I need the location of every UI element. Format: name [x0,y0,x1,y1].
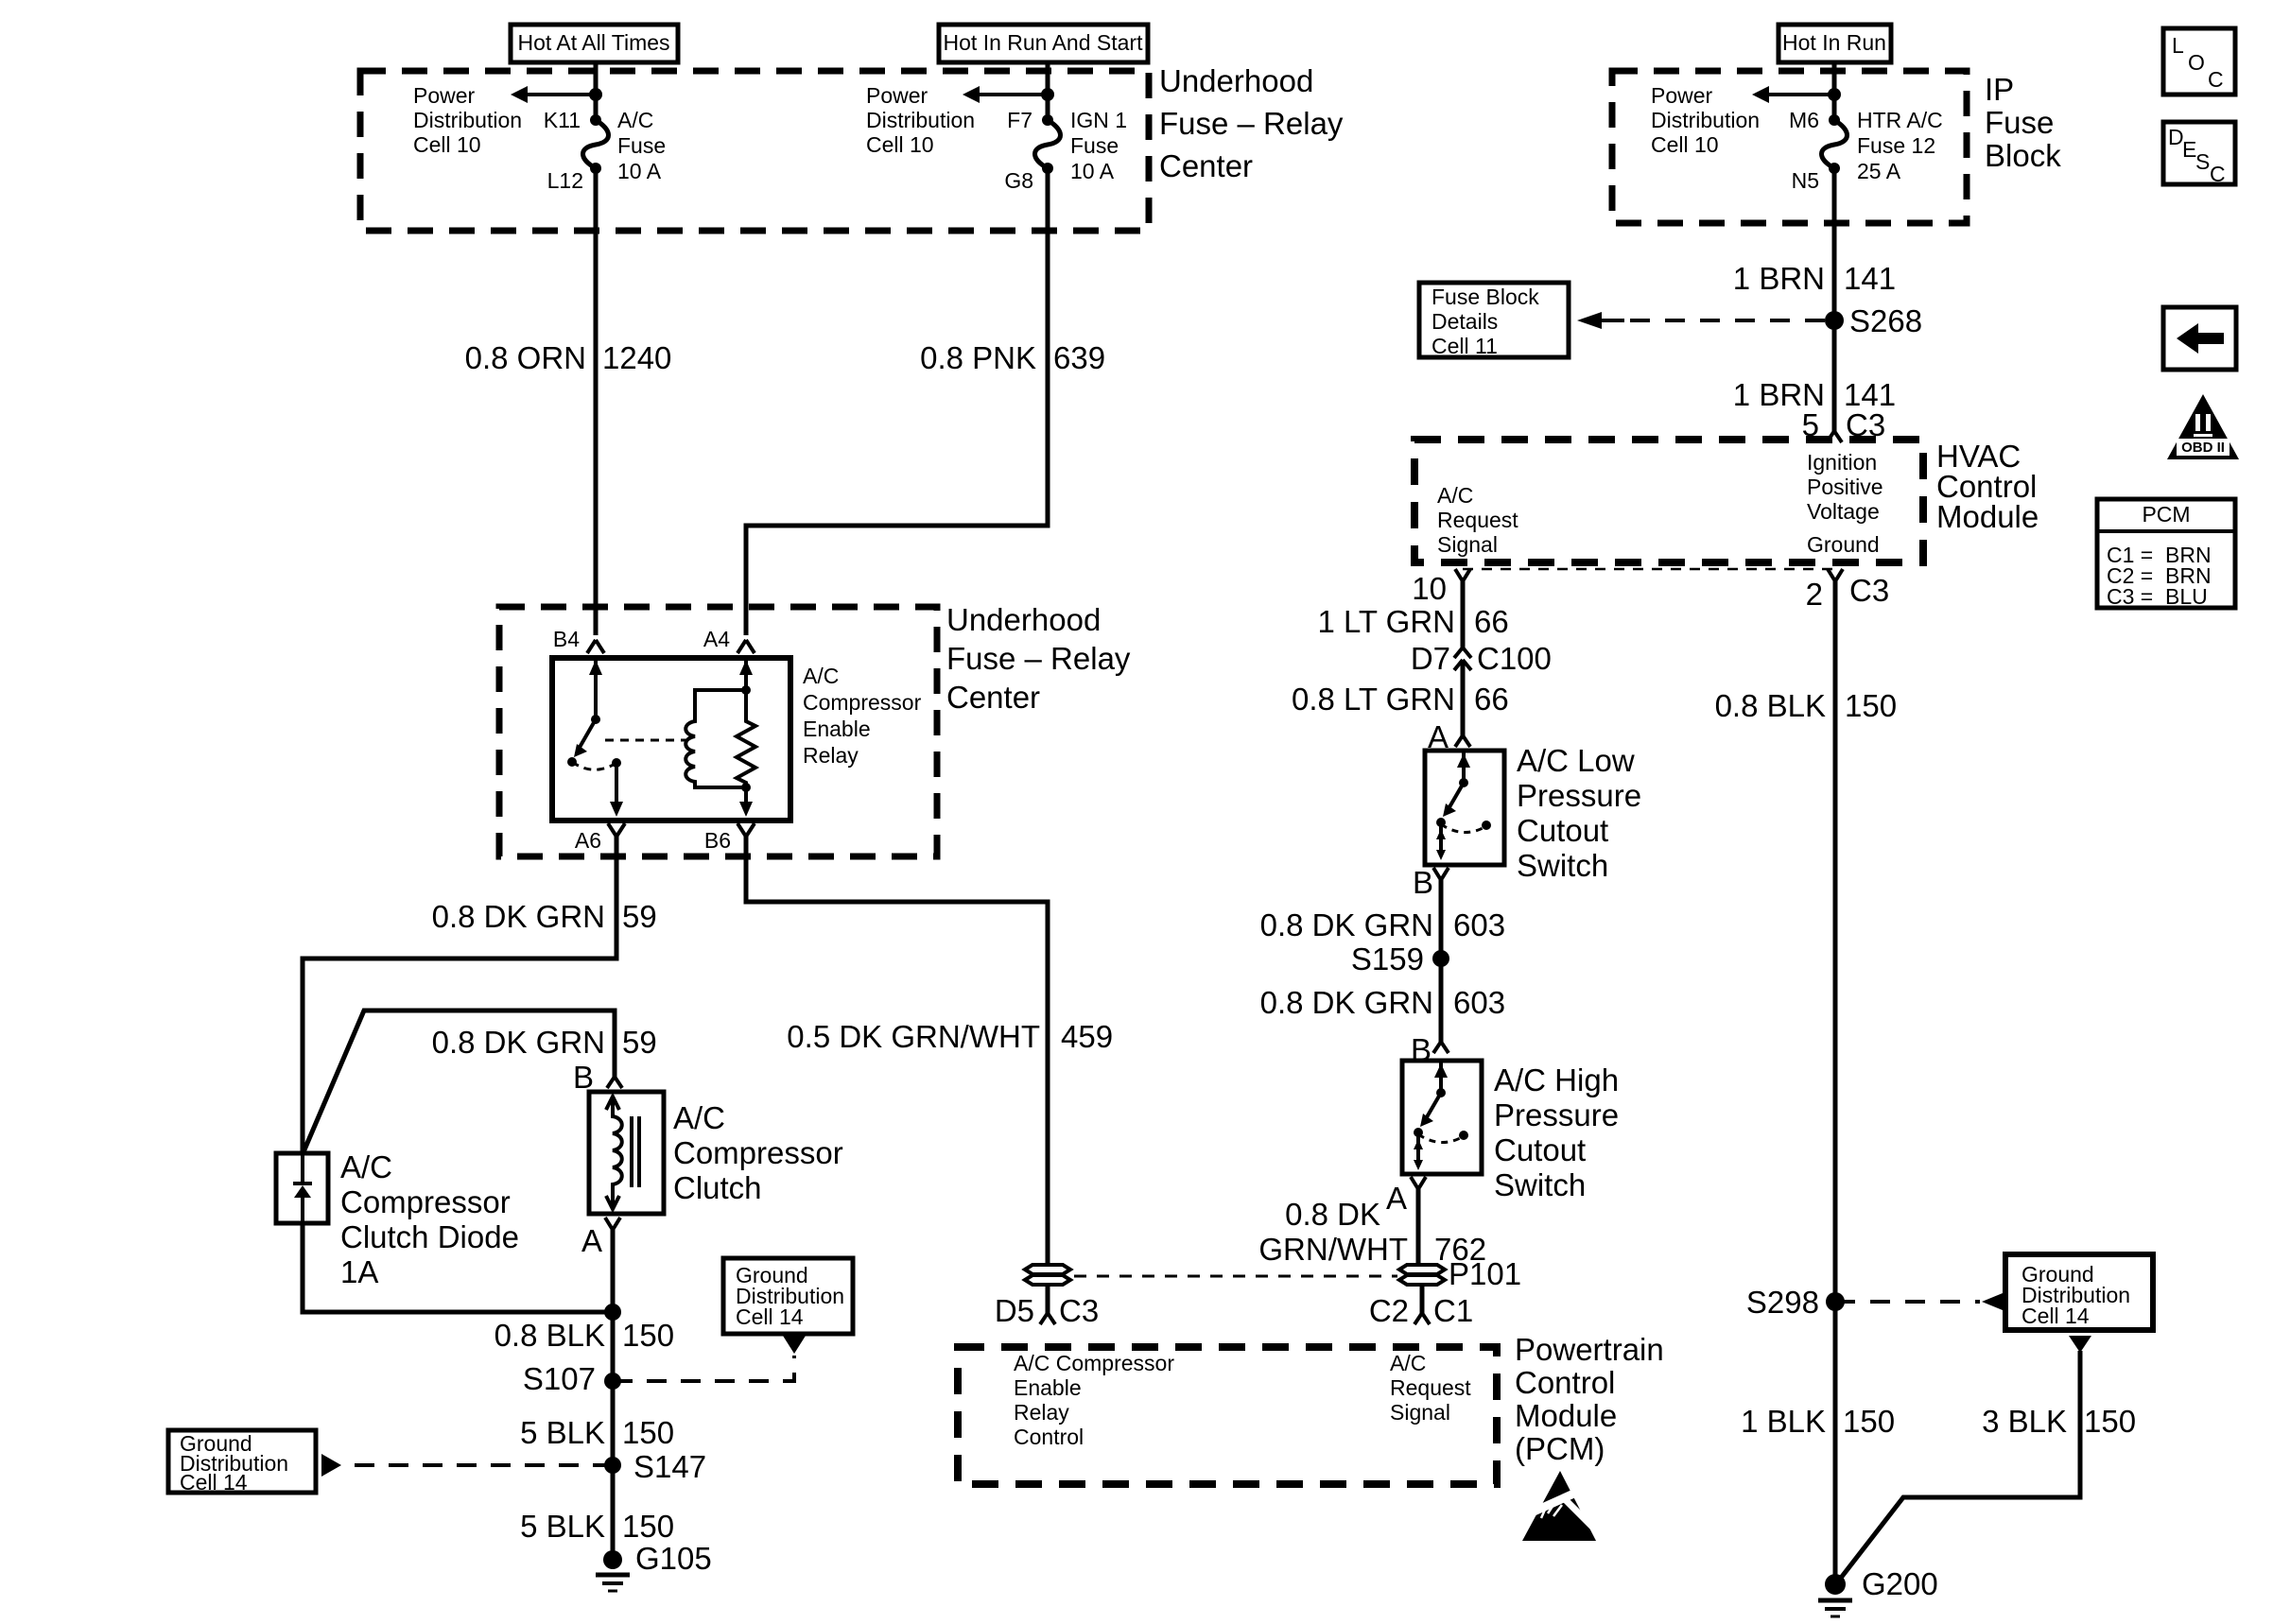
svg-text:603: 603 [1453,985,1505,1020]
wire BRN feed vertical [1832,62,1837,431]
fuse F3 "HTR A/C Fuse 12 25 A" symbol [1822,114,1848,174]
connector C100 double chevron D7 [1411,641,1552,676]
label Powertrain Control Module (PCM) [1515,1332,1664,1466]
svg-text:5 BLK: 5 BLK [520,1509,605,1544]
svg-text:0.8 DK: 0.8 DK [1285,1197,1380,1232]
label A/C Request Signal (HVAC) [1437,483,1518,557]
svg-text:Center: Center [946,680,1040,715]
svg-text:639: 639 [1053,340,1105,375]
svg-text:Enable: Enable [1014,1375,1082,1400]
pin L12 [547,168,583,193]
svg-text:Request: Request [1390,1375,1471,1400]
dashed reference S107 to Ground Distribution [613,1336,806,1381]
svg-text:Switch: Switch [1517,848,1608,883]
svg-text:Power: Power [413,83,476,108]
svg-text:1240: 1240 [602,340,671,375]
label A/C Compressor Enable Relay [803,664,922,768]
svg-text:Control: Control [1515,1365,1615,1400]
fuse F1 "A/C Fuse 10 A" symbol [583,114,609,174]
inline connector grommet P101 [1399,1256,1521,1291]
svg-text:IP: IP [1985,72,2014,107]
terminal A chevron (clutch) [605,1218,620,1230]
svg-text:C100: C100 [1477,641,1552,676]
svg-text:Pressure: Pressure [1494,1097,1619,1132]
pin label B (clutch) [573,1060,594,1095]
svg-text:Distribution: Distribution [413,108,522,132]
wire A/C request 10 to C100 [1461,581,1466,648]
wire branch diagonal to clutch B [303,1011,615,1154]
svg-text:G105: G105 [635,1541,712,1576]
pin K11 [544,108,581,132]
terminal B6 chevron [737,823,755,837]
wire label 5 BLK 150 (upper) [520,1415,674,1450]
wire PNK feed vertical and jog to relay A4 [746,62,1048,635]
svg-text:Clutch: Clutch [673,1170,762,1205]
wire ORN feed vertical [594,62,599,635]
svg-text:A/C: A/C [340,1149,392,1184]
wire B6 to PCM (DK GRN/WHT 459) [746,837,1048,1264]
icon box back arrow [2163,307,2236,370]
splice S298 [1746,1285,1845,1320]
node power distribution tap (right) [1828,88,1841,101]
switch S1 A/C Low Pressure Cutout Switch box [1425,751,1504,865]
svg-text:150: 150 [1843,1404,1895,1439]
svg-text:S147: S147 [633,1449,706,1484]
power label box "Hot In Run And Start" [939,25,1148,62]
svg-text:C3: C3 [1059,1293,1099,1328]
svg-text:A/C: A/C [803,664,839,688]
wire arrow to Power Distribution Cell 10 (left) [511,86,596,103]
relay resistor (parallel) [737,658,755,817]
svg-text:GRN/WHT: GRN/WHT [1258,1232,1408,1267]
svg-text:A6: A6 [575,828,601,853]
wire 3 BLK 150 to G200 [1838,1351,2080,1581]
terminal A6 chevron [608,823,625,837]
label HVAC Control Module [1936,439,2039,534]
pin label B6 [704,828,731,853]
svg-text:10: 10 [1412,571,1447,606]
wire label 0.8 BLK 150 [495,1318,674,1353]
svg-text:0.8 DK GRN: 0.8 DK GRN [1260,985,1433,1020]
svg-text:25 A: 25 A [1857,159,1901,183]
terminal A chevron (low switch) [1428,719,1470,754]
svg-text:Request: Request [1437,508,1518,532]
pin F7 [1007,108,1032,132]
svg-text:A/C: A/C [1390,1351,1426,1375]
terminal B chevron (clutch) [607,1077,622,1088]
svg-text:D5: D5 [995,1293,1034,1328]
label A/C Fuse 10 A [617,108,666,183]
svg-text:Cell 14: Cell 14 [180,1470,248,1494]
svg-text:Signal: Signal [1390,1400,1450,1425]
terminal 2 C3 chevron (HVAC) [1806,569,1890,612]
pin G8 [1004,168,1033,193]
svg-text:Fuse 12: Fuse 12 [1857,133,1935,158]
label Power Distribution Cell 10 (left) [413,83,522,157]
reference box Ground Distribution Cell 14 (right of S107) [723,1258,853,1334]
svg-text:O: O [2188,50,2205,75]
svg-text:603: 603 [1453,907,1505,942]
svg-text:S107: S107 [523,1361,596,1396]
relay dashed actuator link [605,739,688,742]
svg-text:2: 2 [1806,577,1823,612]
svg-text:Cell 14: Cell 14 [736,1304,804,1329]
wire label 5 BLK 150 (lower) [520,1509,674,1544]
dashed reference S147 to Ground Distribution [321,1454,613,1477]
IP fuse block dashed box [1612,71,1967,223]
svg-text:Cell 10: Cell 10 [413,132,481,157]
label A/C Request Signal (PCM) [1390,1351,1471,1425]
svg-text:66: 66 [1474,604,1509,639]
wire arrow to Power Distribution Cell 10 (right) [1752,86,1834,103]
reference box Ground Distribution Cell 14 (right) [2005,1254,2153,1330]
pin labels C2 C1 [1369,1293,1473,1328]
diode D1 A/C Compressor Clutch Diode box [276,1153,328,1223]
svg-text:N5: N5 [1792,168,1819,193]
svg-text:Fuse: Fuse [1070,133,1119,158]
svg-text:Underhood: Underhood [946,602,1101,637]
svg-text:Power: Power [1651,83,1713,108]
svg-text:G200: G200 [1862,1566,1938,1601]
svg-text:Switch: Switch [1494,1167,1586,1202]
terminal A4 chevron [737,640,755,653]
svg-text:(PCM): (PCM) [1515,1431,1605,1466]
wire HVAC ground 2 to S298/G200 [1833,581,1838,1584]
wire label 3 BLK 150 [1982,1404,2136,1439]
svg-text:C: C [2210,162,2226,186]
svg-text:0.8 LT GRN: 0.8 LT GRN [1292,682,1455,717]
reference box Fuse Block Details Cell 11 [1419,283,1569,358]
svg-text:Relay: Relay [1014,1400,1069,1425]
node power distribution tap (left) [589,88,602,101]
svg-text:Compressor: Compressor [803,690,922,715]
relay coil [685,690,746,787]
svg-text:F7: F7 [1007,108,1032,132]
svg-text:Underhood: Underhood [1159,63,1313,98]
svg-text:3 BLK: 3 BLK [1982,1404,2067,1439]
label A/C Low Pressure Cutout Switch [1517,743,1641,883]
svg-text:Cell 10: Cell 10 [866,132,934,157]
clutch coil and plates [606,1097,639,1209]
svg-text:C1: C1 [1433,1293,1473,1328]
svg-text:Control: Control [1014,1425,1084,1449]
relay switch contact from B4 [567,658,623,817]
svg-text:10 A: 10 A [1070,159,1115,183]
ground G200 [1818,1566,1938,1616]
pin label A6 [575,828,601,853]
svg-text:0.8 BLK: 0.8 BLK [495,1318,605,1353]
high pressure switch contacts [1414,1061,1468,1170]
wire into PCM C1 [1420,1285,1425,1313]
ground G105 [596,1541,712,1591]
svg-text:Cell 10: Cell 10 [1651,132,1719,157]
svg-text:150: 150 [2084,1404,2136,1439]
pin label A (clutch) [581,1223,602,1258]
pin labels D5 C3 [995,1293,1099,1328]
connector face dashed line C3 (HVAC bottom) [1463,568,1835,571]
svg-text:L12: L12 [547,168,583,193]
svg-text:S298: S298 [1746,1285,1819,1320]
svg-text:OBD II: OBD II [2181,440,2225,456]
svg-text:Positive: Positive [1807,475,1883,499]
terminal A chevron (high switch out) [1386,1177,1426,1216]
svg-text:Distribution: Distribution [1651,108,1760,132]
wire clutch A to ground junction [611,1230,616,1560]
PCM dashed box [958,1347,1497,1484]
fuse F2 "IGN 1 Fuse 10 A" symbol [1035,114,1061,174]
svg-text:0.8 BLK: 0.8 BLK [1715,688,1826,723]
label A/C Compressor Enable Relay Control [1014,1351,1174,1449]
clutch M1 A/C Compressor Clutch box [589,1092,664,1214]
svg-text:Ignition: Ignition [1807,450,1877,475]
svg-text:150: 150 [622,1318,674,1353]
svg-text:Cutout: Cutout [1494,1132,1586,1167]
pin label B4 [553,627,580,651]
svg-text:1 BRN: 1 BRN [1733,261,1825,296]
svg-text:59: 59 [622,899,657,934]
svg-text:A/C: A/C [617,108,653,132]
wire high switch A to P101 [1418,1189,1422,1265]
terminal B chevron (low switch out) [1413,865,1449,900]
label IGN 1 Fuse 10 A [1070,108,1127,183]
svg-text:HTR A/C: HTR A/C [1857,108,1943,132]
svg-text:0.8 ORN: 0.8 ORN [465,340,586,375]
terminal C2/C1 chevron [1414,1313,1430,1324]
svg-text:Compressor: Compressor [340,1184,511,1219]
svg-text:Powertrain: Powertrain [1515,1332,1664,1367]
svg-text:Power: Power [866,83,928,108]
svg-text:Enable: Enable [803,717,871,741]
wire C100 to low pressure switch A [1461,660,1466,735]
svg-text:Hot In Run: Hot In Run [1782,30,1886,55]
svg-text:C2: C2 [1369,1293,1409,1328]
svg-text:A/C Compressor: A/C Compressor [1014,1351,1174,1375]
svg-text:D7: D7 [1411,641,1450,676]
svg-text:Relay: Relay [803,743,859,768]
wire label 0.8 BLK 150 (right) [1715,688,1897,723]
svg-text:Block: Block [1985,138,2061,173]
reference arrow below box (3 BLK feed) [2069,1336,2091,1353]
relay K1 A/C Compressor Enable Relay box [552,658,790,821]
inline connector grommet (left, at D5/C3) [1025,1265,1070,1285]
svg-text:Fuse Block: Fuse Block [1431,285,1539,309]
svg-text:Distribution: Distribution [866,108,975,132]
underhood fuse-relay center dashed box (relay) [499,607,937,856]
svg-text:Fuse – Relay: Fuse – Relay [1159,106,1344,141]
PCM connector color legend table [2097,499,2235,609]
wire label 0.8 DK GRN 59 (lower) [432,1025,657,1060]
splice S147 [604,1449,706,1484]
svg-text:A/C: A/C [1437,483,1473,508]
svg-text:C3 = BLU: C3 = BLU [2107,584,2208,609]
svg-text:1 LT GRN: 1 LT GRN [1318,604,1456,639]
pin M6 [1789,108,1819,132]
svg-text:59: 59 [622,1025,657,1060]
dashed connector pass-through line to P101 [1074,1275,1397,1278]
svg-text:Center: Center [1159,148,1253,183]
svg-text:Fuse: Fuse [1985,105,2054,140]
label Power Distribution Cell 10 (middle) [866,83,975,157]
low pressure switch contacts [1436,751,1491,860]
svg-text:Clutch Diode: Clutch Diode [340,1219,519,1254]
svg-text:Hot At All Times: Hot At All Times [517,30,669,55]
wire label 0.8 DK GRN 59 (upper) [432,899,657,934]
ESD sensitive symbol [1513,1471,1600,1541]
label Underhood Fuse - Relay Center (relay box) [946,602,1131,715]
svg-text:A/C: A/C [673,1100,725,1135]
label Ignition Positive Voltage / Ground [1807,450,1883,557]
label A/C High Pressure Cutout Switch [1494,1063,1619,1202]
terminal B chevron (high switch in) [1411,1032,1449,1067]
svg-text:10 A: 10 A [617,159,662,183]
svg-text:0.8 DK GRN: 0.8 DK GRN [432,899,605,934]
svg-text:A: A [581,1223,602,1258]
wire label 1 BRN 141 (upper) [1733,261,1896,296]
svg-text:1 BLK: 1 BLK [1741,1404,1826,1439]
wire label 1 LT GRN 66 [1318,604,1509,639]
power label box "Hot At All Times" [511,25,678,62]
dashed reference arrow S268 to Fuse Block Details [1577,312,1826,329]
dashed reference S298 to Ground Distribution [1835,1293,2003,1310]
pin N5 [1792,168,1819,193]
label HTR A/C Fuse 12 25 A [1857,108,1943,183]
svg-text:Hot In Run And Start: Hot In Run And Start [944,30,1144,55]
wire into PCM D5 [1046,1285,1050,1313]
icon OBD II triangle [2167,394,2239,459]
svg-text:S: S [2195,149,2210,174]
svg-text:Fuse: Fuse [617,133,666,158]
svg-text:K11: K11 [544,108,581,132]
icon box DESC [2163,122,2235,186]
wire from A6 down and jog left [303,837,616,1153]
svg-text:C3: C3 [1849,573,1889,608]
svg-text:Ground: Ground [1807,532,1880,557]
svg-text:Module: Module [1515,1398,1617,1433]
svg-text:Cell 14: Cell 14 [2021,1304,2090,1328]
wire label 1 BLK 150 [1741,1404,1895,1439]
terminal 5 C3 chevron (HVAC top) [1802,407,1886,442]
svg-text:0.8 DK GRN: 0.8 DK GRN [1260,907,1433,942]
svg-text:459: 459 [1061,1019,1113,1054]
svg-text:A4: A4 [703,627,730,651]
reference box Ground Distribution Cell 14 (left of S147) [168,1430,316,1494]
splice S159 [1351,942,1449,976]
svg-text:141: 141 [1844,261,1896,296]
svg-text:Voltage: Voltage [1807,499,1880,524]
power label box "Hot In Run" [1778,25,1891,62]
label IP Fuse Block [1985,72,2061,173]
wire label 0.5 DK GRN/WHT 459 [787,1019,1113,1054]
underhood fuse-relay center dashed box (top) [360,71,1149,231]
wire label 1 BRN 141 (lower) [1733,377,1896,412]
svg-text:0.8 DK GRN: 0.8 DK GRN [432,1025,605,1060]
wire diode bottom to junction [303,1223,613,1312]
svg-text:L: L [2172,33,2184,58]
svg-text:Signal: Signal [1437,532,1498,557]
svg-text:150: 150 [622,1509,674,1544]
svg-text:Pressure: Pressure [1517,778,1641,813]
svg-text:B: B [573,1060,594,1095]
label Power Distribution Cell 10 (right) [1651,83,1760,157]
svg-text:150: 150 [622,1415,674,1450]
switch S2 A/C High Pressure Cutout Switch box [1402,1061,1482,1174]
wire label 0.8 LT GRN 66 [1292,682,1509,717]
node power distribution tap (middle) [1041,88,1054,101]
svg-text:150: 150 [1845,688,1897,723]
terminal 10 chevron (HVAC) [1412,569,1470,606]
wire low switch B to S159 [1439,880,1444,1042]
splice S107 [523,1361,621,1396]
svg-text:0.5 DK GRN/WHT: 0.5 DK GRN/WHT [787,1019,1040,1054]
wire label 0.8 DK GRN 603 (upper) [1260,907,1505,942]
wire label 0.8 ORN 1240 [465,340,672,375]
svg-text:PCM: PCM [2142,502,2190,527]
icon box LOC [2163,28,2235,95]
svg-text:Compressor: Compressor [673,1135,843,1170]
label A/C Compressor Clutch [673,1100,843,1205]
label Underhood Fuse - Relay Center (top box) [1159,63,1344,183]
node junction below clutch [604,1304,621,1321]
svg-text:M6: M6 [1789,108,1819,132]
svg-text:B6: B6 [704,828,731,853]
svg-text:A: A [1386,1181,1407,1216]
svg-text:G8: G8 [1004,168,1033,193]
svg-text:0.8 PNK: 0.8 PNK [920,340,1036,375]
svg-text:1A: 1A [340,1254,378,1289]
svg-text:Module: Module [1936,499,2039,534]
svg-text:C: C [2208,67,2224,92]
svg-text:Details: Details [1431,309,1498,334]
pin label A4 [703,627,730,651]
svg-text:66: 66 [1474,682,1509,717]
svg-text:762: 762 [1434,1232,1486,1267]
wire label 0.8 DK GRN/WHT 762 [1258,1197,1486,1267]
terminal B4 chevron [587,640,604,653]
splice S268 [1825,303,1922,338]
svg-text:Cutout: Cutout [1517,813,1608,848]
svg-text:S268: S268 [1849,303,1922,338]
svg-text:A/C High: A/C High [1494,1063,1619,1097]
wire arrow to Power Distribution Cell 10 (middle) [963,86,1048,103]
HVAC Control Module dashed box [1414,440,1923,562]
terminal D5/C3 chevron [1040,1313,1055,1324]
wire label 0.8 PNK 639 [920,340,1105,375]
svg-text:B4: B4 [553,627,580,651]
svg-text:B: B [1413,865,1433,900]
svg-text:A/C Low: A/C Low [1517,743,1635,778]
svg-text:Fuse – Relay: Fuse – Relay [946,641,1131,676]
wire label 0.8 DK GRN 603 (lower) [1260,985,1505,1020]
svg-text:5 BLK: 5 BLK [520,1415,605,1450]
svg-text:S159: S159 [1351,942,1424,976]
svg-text:Cell 11: Cell 11 [1431,334,1498,358]
svg-text:IGN 1: IGN 1 [1070,108,1127,132]
label A/C Compressor Clutch Diode 1A [340,1149,519,1289]
